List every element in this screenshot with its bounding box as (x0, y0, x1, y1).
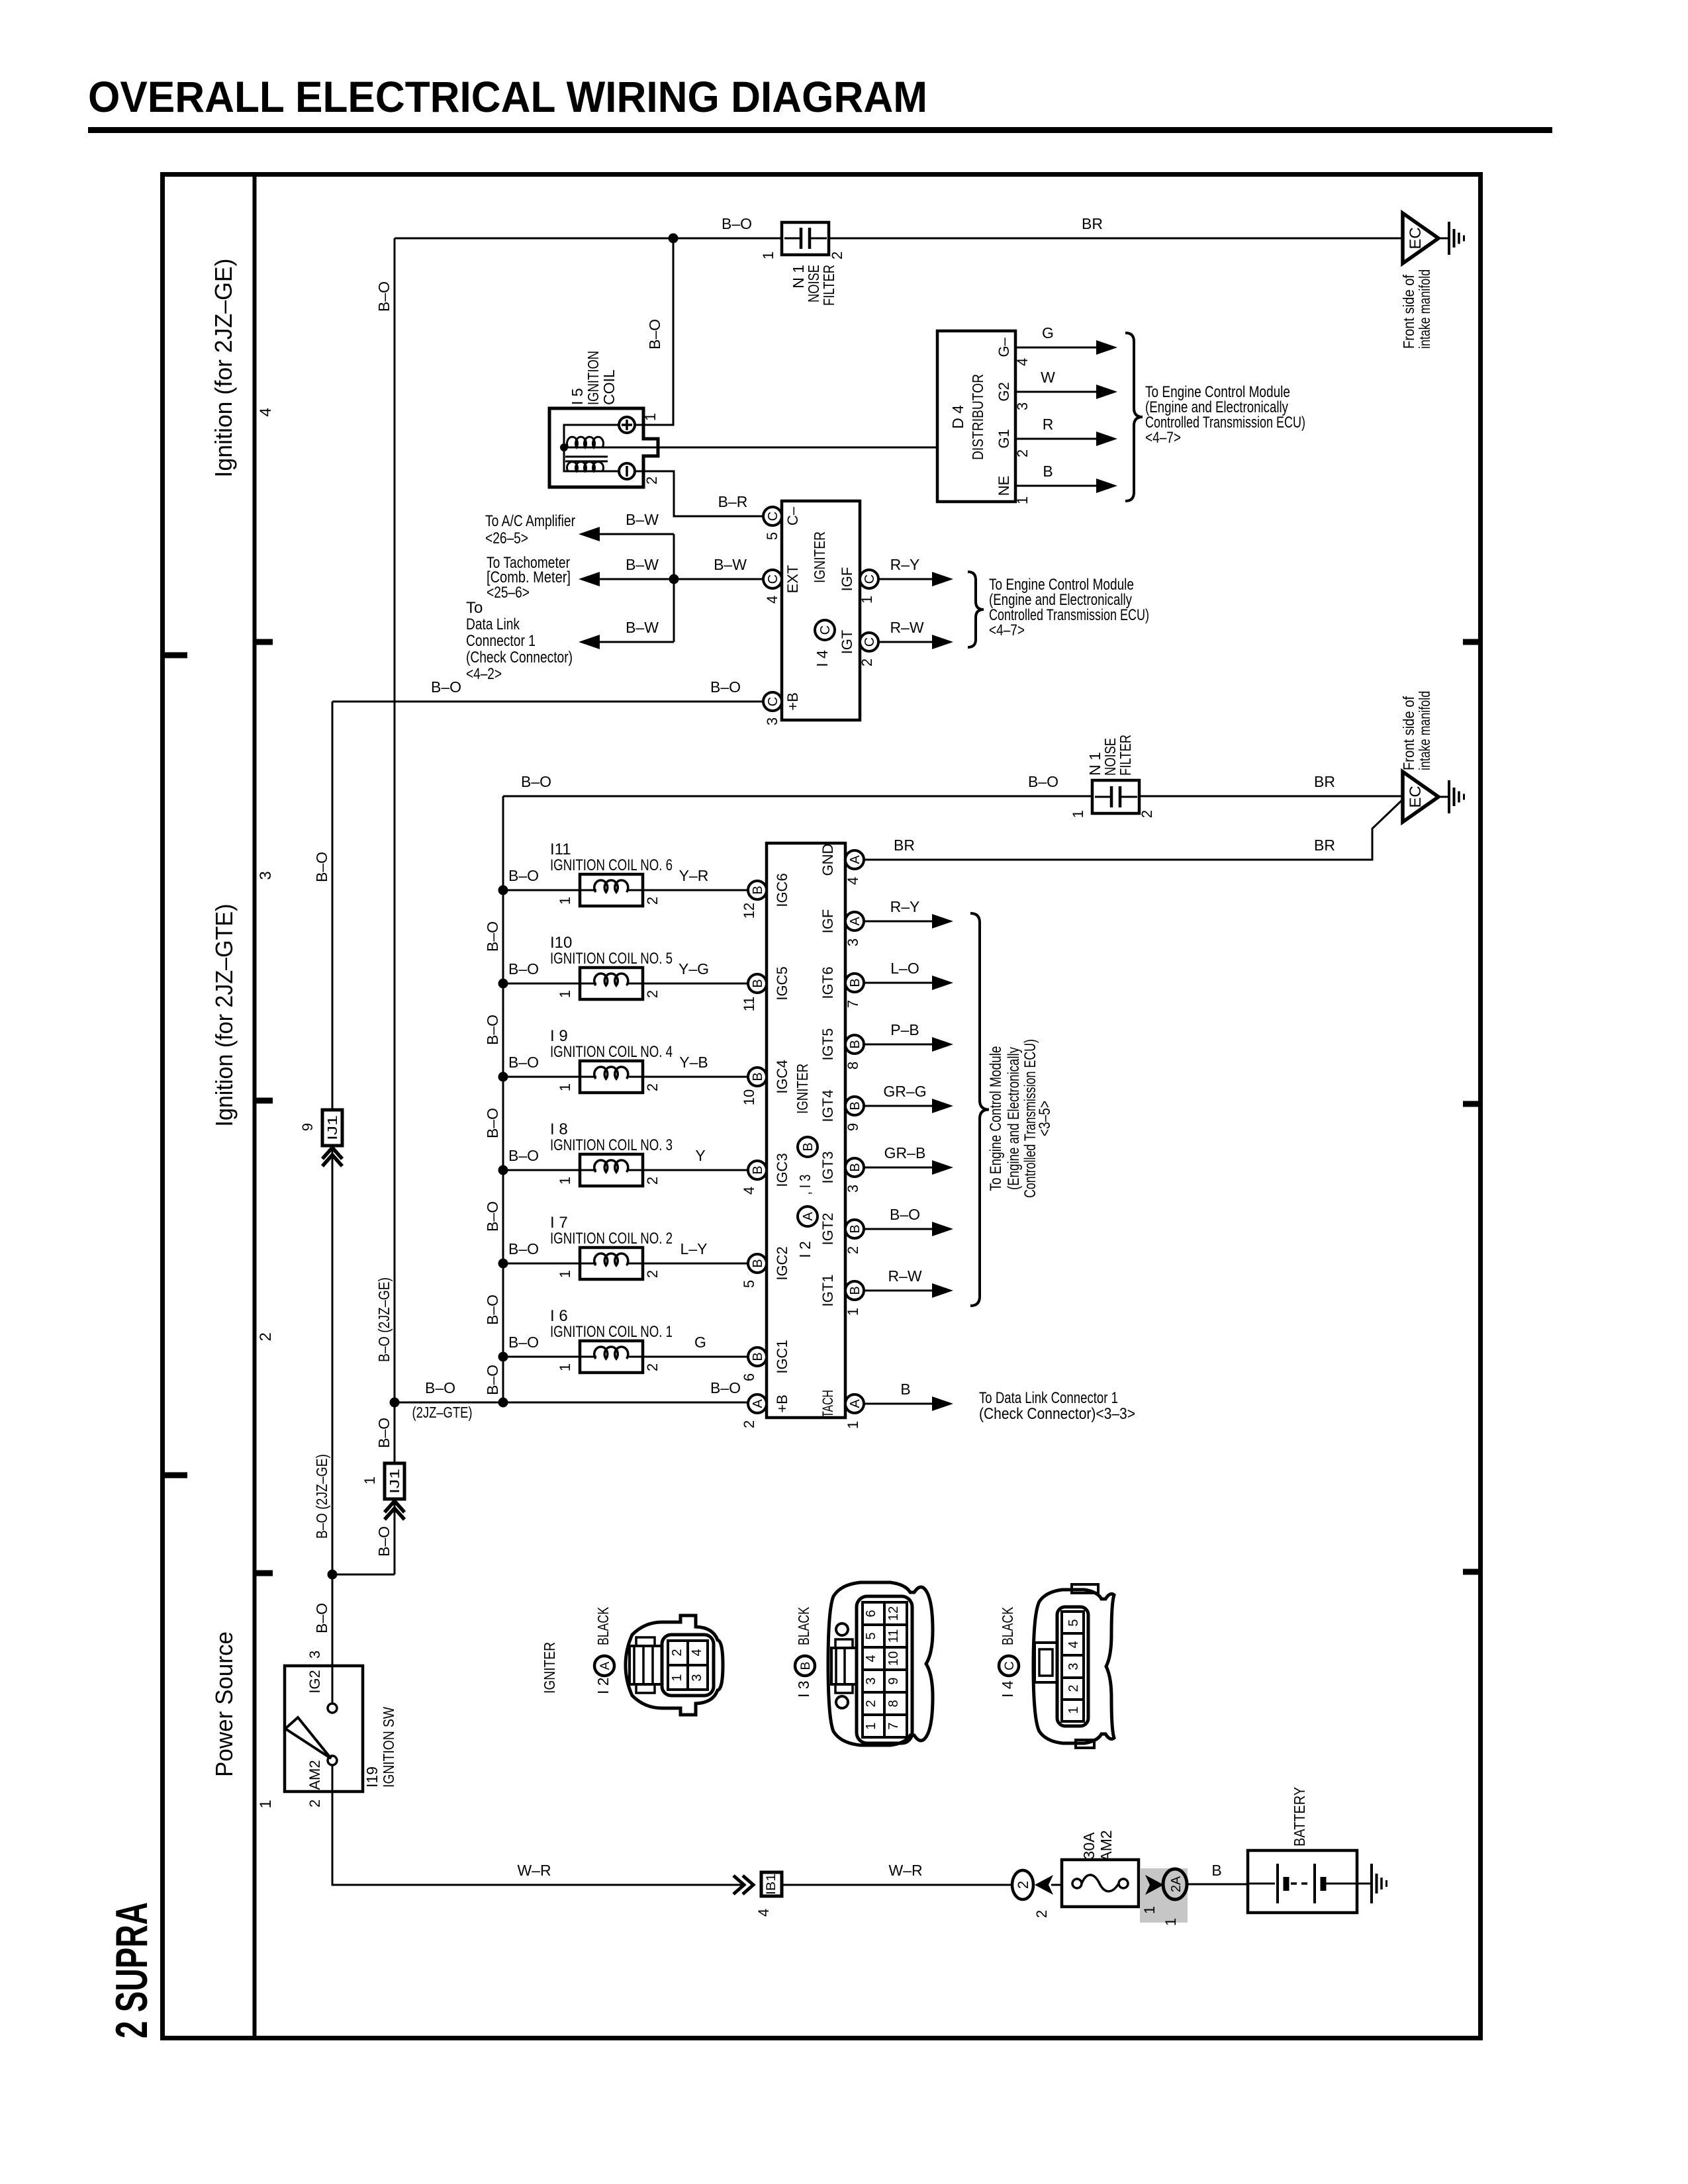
svg-text:R–Y: R–Y (890, 556, 920, 573)
svg-text:Y–B: Y–B (679, 1054, 708, 1071)
svg-text:(Check Connector)<3–3>: (Check Connector)<3–3> (979, 1405, 1135, 1423)
wire B-O (2JZ-GE) vertical left feed (332, 702, 334, 1574)
wire B-O top section3 (503, 796, 1092, 797)
ignition coil I6 no 1 (498, 1352, 508, 1362)
wire +B B-O (332, 701, 763, 703)
in-line connector 2 (1012, 1870, 1033, 1899)
svg-text:3: 3 (690, 1674, 704, 1681)
svg-text:1: 1 (557, 1177, 573, 1185)
arrow to tachometer (579, 572, 600, 586)
igniter pin 2 IGT (860, 633, 878, 651)
igniter pin 1 IGT1 (845, 1281, 864, 1300)
svg-text:4: 4 (755, 1909, 772, 1917)
svg-text:G: G (1042, 324, 1054, 341)
wire AM2 to IB1 (W-R) (332, 1765, 741, 1885)
svg-text:1: 1 (1162, 1918, 1179, 1926)
coil supply bus vertical (502, 796, 504, 1402)
svg-text:+B: +B (784, 692, 801, 711)
svg-text:IGC5: IGC5 (774, 966, 790, 1000)
switch terminal AM2 (328, 1756, 337, 1765)
svg-text:1: 1 (642, 413, 659, 421)
svg-text:1: 1 (557, 990, 573, 998)
svg-text:G–: G– (996, 338, 1012, 357)
svg-text:1: 1 (1014, 496, 1031, 504)
svg-text:To Data Link Connector 1: To Data Link Connector 1 (979, 1389, 1118, 1407)
svg-text:B: B (848, 1163, 863, 1171)
svg-text:<3–5>: <3–5> (1036, 1101, 1054, 1136)
igniter pin 1 IGF (860, 570, 878, 588)
igniter pin 4 IGC3 (748, 1161, 767, 1179)
svg-text:B: B (848, 978, 863, 987)
wire B-O top section4 (395, 238, 782, 240)
label column divider (253, 174, 257, 2038)
igniter pin 2 +B (748, 1394, 767, 1413)
svg-text:B: B (751, 1072, 765, 1081)
connector I3 latch and pegs (836, 1623, 848, 1635)
wire B-O vertical left (to power source) (394, 238, 396, 1402)
svg-text:IGF: IGF (820, 909, 836, 934)
svg-text:IG2: IG2 (306, 1670, 323, 1693)
svg-text:1: 1 (845, 1421, 861, 1429)
svg-text:B: B (751, 1165, 765, 1174)
title underline (88, 127, 1552, 133)
svg-text:3: 3 (1014, 402, 1031, 410)
igniter pin 6 IGC1 (748, 1347, 767, 1366)
svg-text:A: A (751, 1399, 765, 1408)
svg-text:12: 12 (886, 1606, 901, 1621)
svg-text:R–Y: R–Y (890, 898, 920, 915)
svg-text:B–O: B–O (508, 1054, 539, 1071)
svg-text:I11: I11 (550, 841, 571, 858)
svg-text:I 4: I 4 (999, 1680, 1016, 1698)
wire R (1015, 438, 1096, 440)
svg-text:I 8: I 8 (550, 1120, 568, 1138)
svg-text:11: 11 (886, 1629, 901, 1643)
fuse 30A AM2 (1062, 1860, 1139, 1907)
wire R–Y to ECM (864, 921, 932, 923)
svg-text:I 3: I 3 (795, 1680, 812, 1698)
svg-text:C: C (818, 625, 833, 635)
wire R–W to ECM (864, 1290, 932, 1292)
svg-text:I 2: I 2 (594, 1677, 612, 1694)
svg-text:3: 3 (1066, 1662, 1081, 1670)
svg-text:<26–5>: <26–5> (485, 529, 528, 547)
svg-text:30A: 30A (1080, 1832, 1098, 1860)
svg-text:Front side of: Front side of (1400, 274, 1417, 349)
igniter pin 9 IGT4 (845, 1097, 864, 1115)
svg-text:1: 1 (257, 1799, 275, 1808)
svg-text:1: 1 (845, 1308, 861, 1316)
svg-text:A: A (848, 855, 863, 864)
igniter pin 3 +B (763, 692, 782, 711)
connector I2 latch (630, 1646, 662, 1684)
svg-text:C: C (863, 637, 877, 647)
svg-text:IGT6: IGT6 (820, 967, 836, 999)
svg-text:I 6: I 6 (550, 1307, 568, 1325)
ignition coil I7 no 2 (498, 1259, 508, 1269)
svg-text:2: 2 (306, 1799, 323, 1807)
divider tick y970 (254, 639, 273, 645)
svg-text:GR–G: GR–G (883, 1083, 926, 1100)
svg-text:B–O: B–O (1028, 773, 1058, 790)
wire to IG2 terminal (332, 1574, 334, 1704)
igniter pin 12 IGC6 (748, 881, 767, 899)
svg-text:BLACK: BLACK (999, 1607, 1016, 1645)
node junction on top wire (669, 234, 679, 244)
svg-text:5: 5 (864, 1632, 878, 1639)
wire GR–B to ECM (864, 1167, 932, 1169)
svg-text:B–O: B–O (313, 852, 330, 882)
wire from noise filter to EC ground (829, 238, 1403, 240)
svg-text:C: C (766, 512, 780, 521)
wire IGF R-Y (878, 578, 932, 580)
svg-text:(2JZ–GTE): (2JZ–GTE) (412, 1404, 473, 1421)
svg-text:B–O: B–O (484, 1365, 501, 1395)
svg-text:IJ1: IJ1 (388, 1469, 402, 1494)
svg-text:2A: 2A (1169, 1876, 1184, 1892)
igniter connector letter A (798, 1206, 818, 1226)
svg-text:<25–6>: <25–6> (487, 584, 530, 602)
igniter pin 11 IGC5 (748, 974, 767, 993)
svg-text:<4–2>: <4–2> (466, 665, 502, 683)
svg-text:2: 2 (644, 1363, 661, 1371)
svg-text:IGNITION COIL NO. 2: IGNITION COIL NO. 2 (550, 1230, 673, 1248)
svg-text:IGT4: IGT4 (820, 1090, 836, 1122)
svg-text:C: C (766, 697, 780, 706)
svg-text:intake manifold: intake manifold (1416, 691, 1433, 770)
ignition switch I19 box (285, 1666, 363, 1792)
svg-text:A: A (848, 1399, 863, 1408)
EC ground (2JZ-GTE) (1403, 772, 1438, 822)
svg-text:C–: C– (784, 506, 801, 525)
svg-text:I 5: I 5 (569, 388, 586, 405)
svg-text:B: B (848, 1286, 863, 1295)
svg-text:12: 12 (741, 903, 757, 919)
svg-text:5: 5 (764, 532, 780, 540)
svg-text:B–O: B–O (508, 1334, 539, 1351)
wire L–O to ECM (864, 982, 932, 984)
svg-text:IGNITION COIL NO. 6: IGNITION COIL NO. 6 (550, 856, 673, 874)
svg-text:P–B: P–B (890, 1021, 919, 1038)
svg-text:GND: GND (820, 844, 836, 876)
svg-text:1: 1 (1066, 1706, 1081, 1713)
svg-text:AM2: AM2 (1098, 1830, 1115, 1861)
svg-text:B–O: B–O (508, 1240, 539, 1257)
svg-text:4: 4 (741, 1187, 757, 1195)
wire to fuse (1051, 1884, 1062, 1886)
wire GND BR to EC (864, 799, 1403, 860)
svg-text:BLACK: BLACK (795, 1607, 812, 1645)
svg-text:B: B (900, 1381, 910, 1398)
right edge tick y2375 (1463, 1569, 1481, 1575)
svg-text:IGT1: IGT1 (820, 1275, 836, 1307)
wire GR–G to ECM (864, 1105, 932, 1107)
svg-text:B–O: B–O (375, 281, 393, 312)
svg-text:C: C (1003, 1661, 1017, 1670)
left edge tick y990 (162, 653, 187, 659)
arrow to data link connector (579, 635, 600, 649)
svg-text:To A/C Amplifier: To A/C Amplifier (485, 512, 575, 530)
svg-text:B–W: B–W (626, 619, 659, 636)
svg-text:R: R (1043, 416, 1054, 433)
svg-text:1: 1 (1070, 810, 1086, 818)
svg-text:A: A (848, 917, 863, 926)
svg-text:COIL: COIL (600, 369, 618, 405)
svg-text:B: B (848, 1040, 863, 1048)
svg-text:B–O (2JZ–GE): B–O (2JZ–GE) (313, 1454, 330, 1539)
svg-text:5: 5 (1066, 1619, 1081, 1626)
svg-text:1: 1 (670, 1674, 684, 1681)
svg-text:2: 2 (1015, 1881, 1031, 1889)
igniter pin 5 C- (763, 507, 782, 525)
svg-text:I10: I10 (550, 934, 572, 952)
svg-text:9: 9 (845, 1123, 861, 1131)
battery (1248, 1850, 1357, 1913)
igniter pin 5 IGC2 (748, 1254, 767, 1273)
svg-text:B–O: B–O (646, 319, 663, 349)
svg-text:IGT2: IGT2 (820, 1213, 836, 1246)
svg-text:4: 4 (864, 1655, 878, 1662)
svg-text:3: 3 (864, 1677, 878, 1684)
svg-text:DISTRIBUTOR: DISTRIBUTOR (969, 374, 986, 460)
wire IB1 to connector 2 (W-R) (782, 1884, 1012, 1886)
svg-text:3: 3 (764, 717, 780, 725)
svg-text:B–O: B–O (521, 773, 551, 790)
wire EXT to branches (581, 578, 763, 580)
connector I2 face view (626, 1615, 723, 1715)
svg-text:IGT3: IGT3 (820, 1152, 836, 1184)
ignition coil I8 no 3 (498, 1165, 508, 1175)
svg-text:To Engine Control Module: To Engine Control Module (987, 1046, 1005, 1191)
svg-text:3: 3 (845, 938, 861, 946)
svg-text:2: 2 (845, 1246, 861, 1254)
igniter pin 10 IGC4 (748, 1068, 767, 1086)
svg-text:10: 10 (886, 1651, 901, 1666)
svg-text:7: 7 (845, 1000, 861, 1008)
svg-text:(Engine and Electronically: (Engine and Electronically (1005, 1047, 1023, 1190)
svg-text:R–W: R–W (890, 619, 923, 636)
svg-text:1: 1 (859, 596, 875, 604)
svg-text:G1: G1 (996, 429, 1012, 448)
svg-text:IJ1: IJ1 (326, 1115, 340, 1140)
svg-text:intake manifold: intake manifold (1416, 269, 1433, 349)
svg-text:I 9: I 9 (550, 1027, 568, 1045)
svg-text:B: B (751, 1259, 765, 1267)
wire IGT R-W (878, 641, 932, 643)
connector I4 latch (1035, 1643, 1057, 1682)
svg-text:3: 3 (306, 1651, 323, 1659)
svg-text:I 7: I 7 (550, 1214, 568, 1232)
wire B (1015, 485, 1096, 487)
wire coil to igniter C- (635, 471, 763, 516)
svg-text:B: B (1043, 463, 1053, 480)
svg-text:IGNITION COIL NO. 3: IGNITION COIL NO. 3 (550, 1136, 673, 1154)
svg-text:7: 7 (886, 1722, 901, 1729)
igniter I4 connector letter C (815, 620, 835, 640)
svg-text:IGC2: IGC2 (774, 1246, 790, 1280)
svg-text:6: 6 (741, 1373, 757, 1381)
svg-text:IGNITER: IGNITER (811, 531, 828, 583)
svg-text:A: A (598, 1661, 612, 1670)
svg-text:R–W: R–W (888, 1267, 921, 1285)
svg-text:4: 4 (257, 408, 275, 416)
svg-text:IGT: IGT (839, 630, 855, 655)
svg-text:2: 2 (864, 1700, 878, 1707)
svg-text:Connector 1: Connector 1 (466, 632, 536, 650)
svg-text:2: 2 (644, 1270, 661, 1278)
svg-text:IGNITER: IGNITER (541, 1642, 558, 1694)
svg-text:1: 1 (557, 1363, 573, 1371)
right edge tick y1668 (1463, 1101, 1481, 1107)
svg-text:8: 8 (886, 1700, 901, 1707)
wire to battery (B) (1187, 1884, 1248, 1886)
svg-text:IGNITION SW: IGNITION SW (380, 1707, 397, 1788)
svg-text:B–O: B–O (508, 960, 539, 978)
svg-text:6: 6 (864, 1610, 878, 1617)
brace to ECM (distributor) (1125, 333, 1143, 501)
svg-text:, I 3: , I 3 (796, 1175, 814, 1195)
divider tick y2377 (254, 1570, 273, 1576)
svg-text:2 SUPRA: 2 SUPRA (107, 1902, 157, 2038)
svg-text:EC: EC (1407, 227, 1425, 249)
svg-text:2: 2 (644, 1083, 661, 1091)
svg-text:C: C (863, 574, 877, 584)
svg-text:10: 10 (741, 1089, 757, 1105)
svg-text:L–O: L–O (890, 960, 919, 977)
svg-text:B–O: B–O (508, 1147, 539, 1164)
wire battery to ground (1357, 1883, 1372, 1885)
svg-text:L–Y: L–Y (680, 1240, 708, 1257)
svg-text:2: 2 (643, 477, 660, 484)
svg-text:I 2: I 2 (796, 1241, 814, 1258)
svg-text:BLACK: BLACK (594, 1607, 612, 1645)
svg-text:EXT: EXT (784, 565, 801, 594)
ignition coil I10 no 5 (498, 979, 508, 989)
wire W (1015, 391, 1096, 393)
igniter pin 7 IGT6 (845, 974, 864, 992)
highlighted battery connector area (1140, 1868, 1188, 1923)
igniter pin 3 IGF (845, 912, 864, 931)
svg-text:IB1: IB1 (765, 1874, 778, 1895)
svg-text:B–O: B–O (484, 1108, 501, 1138)
svg-text:2: 2 (644, 990, 661, 998)
svg-text:1: 1 (557, 1083, 573, 1091)
wire noise filter to EC (BR) (1139, 796, 1403, 797)
svg-text:Y–G: Y–G (679, 960, 709, 978)
svg-text:B–O: B–O (484, 1295, 501, 1325)
wire corner to junction (394, 1402, 396, 1463)
svg-text:IGNITION COIL NO. 5: IGNITION COIL NO. 5 (550, 950, 673, 968)
svg-text:8: 8 (845, 1062, 861, 1069)
igniter pin 4 GND (845, 850, 864, 869)
igniter I2 I3 box (767, 843, 845, 1418)
battery ground (1370, 1864, 1373, 1903)
svg-text:B–O: B–O (425, 1379, 455, 1396)
svg-text:Power Source: Power Source (211, 1631, 238, 1777)
igniter pin 4 EXT (763, 570, 782, 588)
svg-text:G: G (694, 1334, 706, 1351)
svg-text:BATTERY: BATTERY (1291, 1787, 1308, 1846)
svg-text:3: 3 (257, 871, 275, 880)
svg-text:Front side of: Front side of (1400, 696, 1417, 770)
wire B–O to ECM (864, 1228, 932, 1230)
connector I3 face view (828, 1582, 933, 1745)
svg-text:Ignition (for 2JZ–GTE): Ignition (for 2JZ–GTE) (211, 904, 238, 1127)
svg-text:B–O: B–O (722, 215, 752, 232)
junction connector IB1 (743, 1876, 753, 1894)
svg-text:4: 4 (1066, 1641, 1081, 1648)
svg-text:W: W (1041, 369, 1055, 386)
svg-text:IGT5: IGT5 (820, 1028, 836, 1061)
coil I5 internals (564, 425, 619, 471)
svg-text:B: B (801, 1142, 816, 1151)
svg-text:9: 9 (886, 1677, 901, 1684)
svg-text:C: C (766, 574, 780, 584)
svg-text:5: 5 (741, 1280, 757, 1288)
svg-text:B: B (1211, 1862, 1221, 1879)
svg-text:B–W: B–W (626, 556, 659, 573)
svg-text:9: 9 (299, 1123, 316, 1131)
svg-text:B–O: B–O (484, 921, 501, 952)
svg-text:11: 11 (741, 997, 757, 1012)
svg-text:2: 2 (1014, 449, 1031, 457)
wire TACH B (864, 1403, 932, 1405)
switch terminal IG2 (328, 1704, 337, 1713)
svg-text:B–W: B–W (714, 556, 747, 573)
svg-text:(Check Connector): (Check Connector) (466, 649, 573, 666)
wire B-O (2JZ-GTE) to igniter +B (395, 1402, 748, 1404)
svg-text:B–O: B–O (710, 1379, 741, 1396)
svg-text:B–O: B–O (508, 867, 539, 884)
svg-text:W–R: W–R (517, 1862, 551, 1879)
svg-text:IGC4: IGC4 (774, 1060, 790, 1093)
switch lever (285, 1717, 331, 1758)
svg-text:Ignition (for 2JZ–GE): Ignition (for 2JZ–GE) (210, 259, 237, 478)
svg-text:G2: G2 (996, 382, 1012, 401)
svg-text:2: 2 (829, 251, 845, 259)
svg-text:2: 2 (1066, 1684, 1081, 1692)
svg-text:B–O: B–O (890, 1206, 920, 1223)
svg-text:IGNITION: IGNITION (585, 351, 602, 405)
svg-text:2: 2 (670, 1649, 684, 1656)
svg-text:1: 1 (760, 251, 776, 259)
igniter pin 1 TACH (845, 1394, 864, 1413)
junction connector IJ1 pin 9 (322, 1110, 342, 1146)
svg-text:FILTER: FILTER (820, 265, 837, 306)
distributor D4 box (937, 331, 1015, 502)
svg-text:4: 4 (764, 596, 780, 604)
EC ground (2JZ-GE) (1403, 213, 1438, 263)
svg-text:IGC6: IGC6 (774, 873, 790, 907)
svg-text:<4–7>: <4–7> (989, 621, 1025, 639)
svg-text:1: 1 (1141, 1906, 1158, 1914)
svg-text:Y: Y (695, 1147, 705, 1164)
in-line connector 2A (1163, 1869, 1187, 1899)
wire coil secondary to distributor (658, 447, 937, 449)
svg-text:GR–B: GR–B (884, 1144, 926, 1161)
svg-text:B–W: B–W (626, 511, 659, 528)
svg-text:IGNITION COIL NO. 1: IGNITION COIL NO. 1 (550, 1323, 673, 1341)
igniter pin 2 IGT2 (845, 1220, 864, 1238)
svg-text:IGF: IGF (839, 567, 855, 592)
svg-text:B–O: B–O (313, 1603, 330, 1633)
brace to ECM (igniter) (968, 572, 984, 647)
ignition coil I5 (549, 408, 658, 487)
noise filter N1 (2JZ-GE) (782, 222, 829, 255)
svg-text:EC: EC (1407, 786, 1425, 807)
svg-text:BR: BR (1082, 215, 1103, 232)
svg-text:Data Link: Data Link (466, 615, 520, 633)
